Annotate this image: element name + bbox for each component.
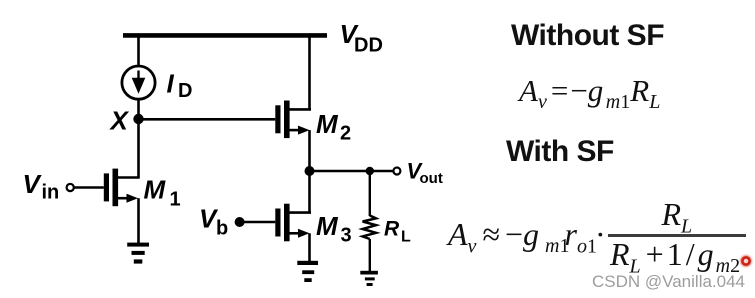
transistor M3: [275, 204, 311, 242]
svg-text:3: 3: [341, 225, 352, 247]
formula 2 fraction denominator: [610, 236, 740, 278]
ground (below M1): [127, 243, 149, 264]
svg-text:1: 1: [170, 189, 181, 211]
Vb label: [199, 204, 228, 240]
svg-text:DD: DD: [354, 34, 383, 56]
ground (below M3): [297, 261, 318, 282]
svg-text:M: M: [144, 175, 167, 205]
node X junction dot: [133, 114, 143, 124]
wire M3 source to ground: [308, 233, 311, 262]
svg-text:X: X: [109, 106, 130, 136]
wire output node to M3 drain: [308, 171, 311, 214]
VDD label: [340, 19, 383, 56]
wire output node to Vout: [310, 170, 394, 172]
wire M1 source to ground: [137, 198, 140, 244]
svg-text:D: D: [178, 80, 192, 102]
resistor RL: [363, 216, 376, 240]
watermark CSDN: [592, 272, 745, 292]
M3 label: [316, 211, 352, 247]
svg-text:2: 2: [340, 123, 351, 145]
VDD rail: [123, 33, 327, 38]
formula 2 fraction numerator RL: [662, 196, 693, 238]
red recording dot: [738, 253, 754, 269]
formula Av = -gm1 RL: [519, 73, 660, 114]
junction dot (RL branch): [366, 167, 374, 175]
M1 label: [144, 175, 181, 211]
wire M2 source to output node: [308, 130, 311, 171]
RL label: [384, 218, 411, 246]
wire VDD rail to M2 drain: [308, 36, 311, 111]
svg-text:L: L: [401, 229, 411, 246]
svg-text:in: in: [42, 181, 60, 203]
wire RL node to resistor: [369, 171, 371, 216]
ground (below RL): [360, 271, 378, 286]
formula 2 fraction bar: [608, 234, 747, 237]
current source ID: [122, 66, 155, 99]
M2 label: [316, 109, 351, 145]
svg-text:M: M: [316, 211, 339, 241]
svg-text:M: M: [316, 109, 339, 139]
Vout label: [407, 159, 443, 188]
wire current source to node X: [137, 99, 140, 119]
svg-text:b: b: [216, 217, 228, 239]
Vout terminal (open circle): [393, 168, 400, 175]
heading Without SF: [511, 19, 664, 53]
heading With SF: [506, 135, 614, 169]
wire Vin to M1 gate: [74, 186, 104, 188]
Vin input terminal (open circle): [67, 184, 74, 191]
svg-text:I: I: [167, 69, 175, 99]
wire node X to M2 gate: [139, 118, 276, 121]
Vin label: [23, 169, 60, 203]
Vb terminal dot: [235, 217, 245, 227]
transistor M2: [275, 101, 311, 139]
wire resistor to ground: [369, 239, 371, 272]
output junction dot (M2 source / M3 drain): [305, 166, 315, 176]
transistor M1: [104, 169, 140, 207]
svg-text:out: out: [420, 170, 443, 187]
wire rail to current source: [137, 36, 140, 66]
wire Vb to M3 gate: [240, 221, 276, 223]
wire node X to M1 drain: [137, 119, 140, 179]
I_D label: [167, 69, 193, 103]
formula 2 left part: [448, 216, 606, 258]
svg-text:V: V: [23, 169, 43, 199]
svg-text:R: R: [384, 218, 400, 241]
